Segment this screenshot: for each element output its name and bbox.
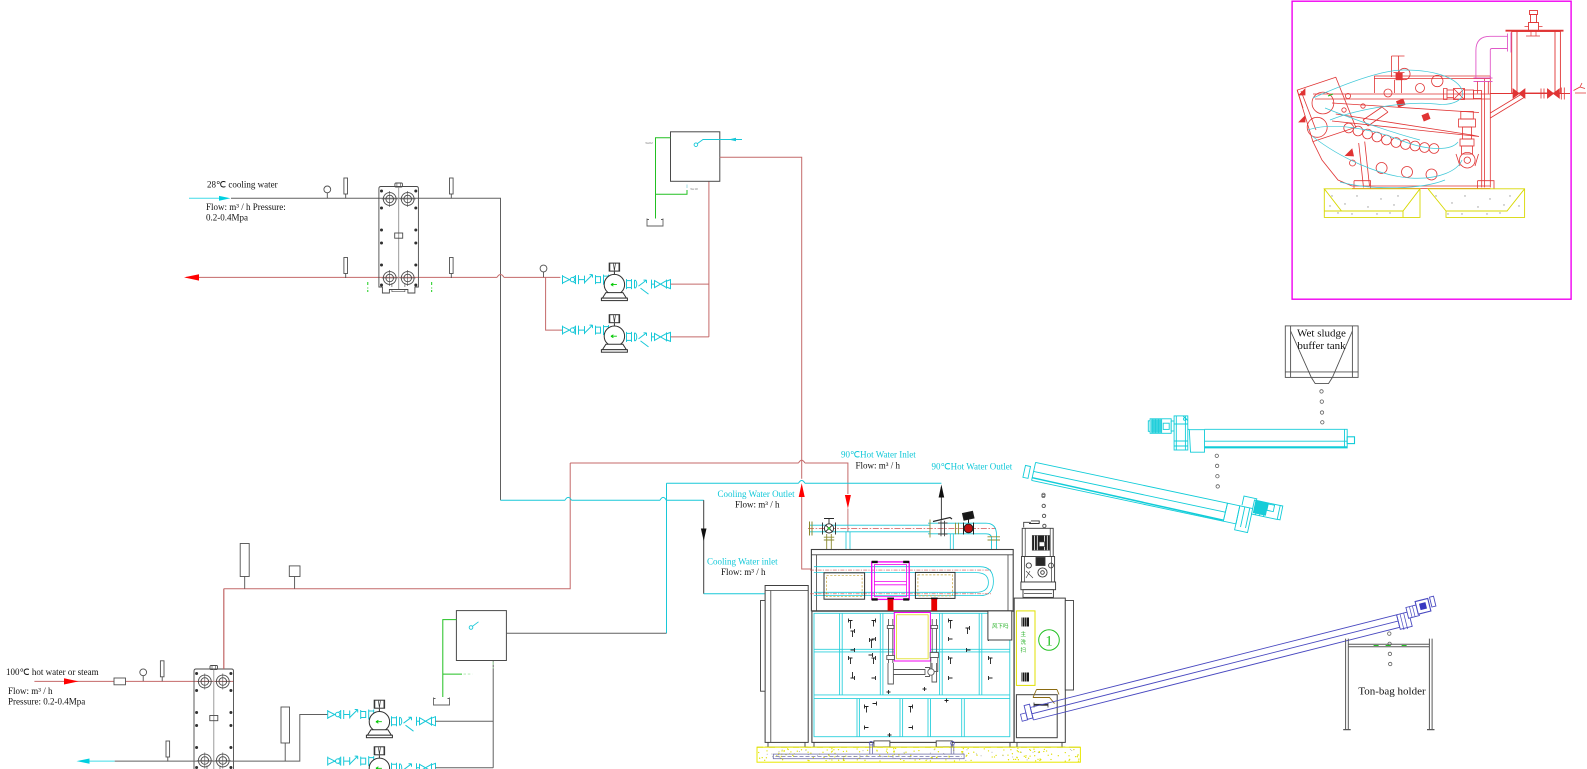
green tick xyxy=(1328,94,1333,96)
svg-text:3w02: 3w02 xyxy=(645,141,653,145)
wire grey condensate line xyxy=(115,715,328,762)
svg-text:100℃ hot water or steam: 100℃ hot water or steam xyxy=(6,667,99,677)
wire P1 discharge red xyxy=(671,283,709,285)
thermometer TW-5 xyxy=(160,661,164,682)
valve cluster suction P1 xyxy=(563,275,609,285)
wire cyan into machine left xyxy=(704,593,765,595)
small nozzle fittings pattern xyxy=(849,619,993,738)
thermometer tall near E2 xyxy=(281,707,290,743)
wire red hot water supply from box1 right xyxy=(720,157,812,569)
pipe left end flange xyxy=(810,522,813,536)
svg-text:0.2-0.4Mpa: 0.2-0.4Mpa xyxy=(206,213,248,223)
falling dots near C1 xyxy=(1215,454,1219,488)
feed pipes inside xyxy=(887,619,939,684)
lever handle xyxy=(933,518,952,522)
underfloor drag conveyor xyxy=(773,741,964,758)
valve cluster discharge P3 xyxy=(392,716,436,731)
SEC6 main dryer machine xyxy=(757,494,1080,762)
main beams xyxy=(1374,76,1490,187)
middle roller row xyxy=(1344,123,1354,133)
dryer lower box xyxy=(812,611,1014,742)
drain funnel D2 xyxy=(434,698,450,706)
falling dots below blue conveyor head xyxy=(1388,632,1392,666)
top pipe header assembly xyxy=(808,511,1000,549)
svg-text:风下吗: 风下吗 xyxy=(992,622,1009,630)
valve cluster suction P4 xyxy=(328,756,374,766)
black arrow up hot water outlet xyxy=(939,485,945,498)
svg-text:Flow: m³ / h: Flow: m³ / h xyxy=(8,686,53,696)
heat exchanger E2 (plate type) xyxy=(194,666,234,769)
svg-text:Cooling Water inlet: Cooling Water inlet xyxy=(707,557,778,567)
yellow panel xyxy=(1016,611,1035,686)
discharge chute xyxy=(1033,690,1059,698)
legs xyxy=(1352,99,1490,189)
dryer top box xyxy=(811,550,1013,611)
gauge PI-1 xyxy=(324,186,331,198)
gearbox C2 xyxy=(1235,496,1257,533)
heat exchanger E1 (plate type) xyxy=(379,183,419,293)
level sensor in B2 xyxy=(469,626,473,630)
wire red 100C steam inlet xyxy=(34,680,233,682)
green dash marks at E1 bottom xyxy=(368,282,432,292)
discharge press stack xyxy=(1461,112,1474,120)
pipe centerline red dashdot xyxy=(808,527,996,529)
support drop pipe left xyxy=(827,534,832,550)
falling dots above vacuum pump xyxy=(1042,494,1046,527)
pump P4 xyxy=(366,747,392,769)
gearbox of C1 xyxy=(1174,416,1188,450)
valve cluster discharge P2 xyxy=(627,332,671,347)
gauge PI-2 xyxy=(540,265,547,277)
hot water inlet drop pipe xyxy=(846,532,850,550)
svg-text:1: 1 xyxy=(1045,634,1053,650)
thermometer TW-3 xyxy=(344,258,348,279)
internal heating pipe with U-bend xyxy=(814,567,994,596)
wire green overflow piping B2 xyxy=(443,620,462,697)
motor C2 xyxy=(1252,500,1281,520)
left auxiliary cabinet xyxy=(761,586,809,743)
red arrow down hot water inlet xyxy=(845,495,851,509)
wire red vertical to E2 top xyxy=(223,589,225,669)
red feed column right xyxy=(931,598,938,618)
agitator motor on tank xyxy=(1529,23,1539,31)
svg-text:buffer tank: buffer tank xyxy=(1297,340,1346,352)
SEC5 cooling loop to machine xyxy=(501,481,945,634)
level sensor in B1 xyxy=(694,143,698,147)
ton-bag holder frame xyxy=(1343,639,1434,730)
green machine number circle 1 xyxy=(1039,630,1060,651)
svg-text:Flow: m³ / h: Flow: m³ / h xyxy=(735,500,780,510)
wire red riser from bottom-left HX xyxy=(224,463,570,669)
sludge tank on press xyxy=(1490,11,1570,100)
pipe main run double line xyxy=(810,523,987,534)
machine base strip xyxy=(765,741,1065,747)
thermometer TW-1 xyxy=(344,178,348,199)
magenta border frame xyxy=(1292,1,1571,299)
svg-text:28℃ cooling water: 28℃ cooling water xyxy=(207,180,278,190)
svg-text:Flow: m³ / h: Flow: m³ / h xyxy=(721,567,766,577)
wire P4 discharge xyxy=(436,767,494,769)
wire P2 discharge red xyxy=(671,336,709,338)
svg-text:Pressure: 0.2-0.4Mpa: Pressure: 0.2-0.4Mpa xyxy=(8,697,85,707)
cyan grid verticals bottom row xyxy=(857,699,964,737)
svg-text:Cooling Water Outlet: Cooling Water Outlet xyxy=(718,489,796,499)
SEC7 conveyors and tank right side xyxy=(1021,326,1436,730)
tube of C1 xyxy=(1205,429,1348,448)
magenta feed chute frame xyxy=(894,613,930,662)
faucet mark outside border xyxy=(1574,83,1587,93)
screw conveyor C1 horizontal xyxy=(1148,416,1354,452)
bottom-right discharge sub box xyxy=(1016,695,1057,738)
actuated valve xyxy=(963,511,975,534)
svg-text:Flow: m³ / h Pressure:: Flow: m³ / h Pressure: xyxy=(206,202,286,212)
drain funnel D1 xyxy=(647,219,663,227)
pump P2 xyxy=(601,315,627,353)
svg-text:扫: 扫 xyxy=(1021,646,1027,654)
SEC2 box1 expansion tank and green piping xyxy=(645,132,742,226)
green dashes on holder bar xyxy=(1374,645,1410,647)
tank outlet piping and valves xyxy=(1490,93,1570,95)
wire cooling water top line xyxy=(231,198,501,500)
valve cluster discharge P4 xyxy=(392,763,436,769)
magenta chamber xyxy=(872,562,910,600)
barcode block top xyxy=(1022,618,1030,627)
barcode block bottom xyxy=(1022,673,1030,682)
control box B1 xyxy=(671,132,720,182)
wire red header from box1 xyxy=(708,181,710,337)
middle band frame xyxy=(1332,103,1479,137)
left chamber window xyxy=(824,573,865,599)
SEC9 labels xyxy=(6,180,1013,707)
inclined left frame xyxy=(1297,77,1356,141)
red arrow up cooling water outlet xyxy=(799,483,805,497)
SEC3 hot loop red lines xyxy=(224,157,851,669)
concrete speckles xyxy=(1329,195,1519,214)
wire cyan condensate return arrow xyxy=(80,760,115,762)
svg-text:洗: 洗 xyxy=(1021,638,1027,646)
SEC8 top-right belt press in magenta box xyxy=(1292,1,1586,299)
small red clamp mid xyxy=(1397,99,1406,107)
wire dark drop to machine inlet xyxy=(703,500,705,594)
foundation speckles xyxy=(758,748,1079,762)
screw conveyor C2 inclined xyxy=(1023,462,1283,532)
upper frame small motor xyxy=(1396,73,1402,80)
thermometer TW-6 xyxy=(166,741,170,762)
wire cyan cooling inlet run with pipe hops xyxy=(501,499,704,501)
pump P3 xyxy=(366,700,392,738)
red arrow left xyxy=(184,274,199,280)
black arrow down cooling inlet xyxy=(701,529,707,542)
wire 28C cooling water inlet (cyan arrow) xyxy=(189,197,220,199)
wire grey from box2 to cyan riser xyxy=(506,632,666,634)
wire grey riser to box2 xyxy=(492,661,494,768)
pipe right elbow down xyxy=(986,523,997,549)
left drums xyxy=(1312,92,1334,114)
wire red branch to pump 2 xyxy=(546,277,563,330)
vacuum pump unit xyxy=(1021,521,1056,598)
foundation yellow xyxy=(757,747,1080,762)
flange right of valve xyxy=(956,523,959,534)
cyan grid verticals upper/mid xyxy=(840,613,982,695)
cyan grid outer xyxy=(814,613,1010,736)
svg-text:Wet sludge: Wet sludge xyxy=(1297,328,1346,340)
left end cap C2 xyxy=(1023,465,1031,478)
red feed column left xyxy=(887,598,894,618)
lower rollers xyxy=(1376,163,1387,174)
control box B2 xyxy=(456,611,506,661)
valve cluster suction P3 xyxy=(328,710,374,720)
thermometer tall on steam line xyxy=(240,544,249,577)
foundation concrete blocks xyxy=(1324,189,1524,218)
valve cluster suction P2 xyxy=(563,325,609,335)
white control sub-box xyxy=(988,611,1012,640)
wire red hot water inlet main xyxy=(570,463,848,494)
wire hot side red return line xyxy=(186,276,560,278)
svg-text:Flow: m³ / h: Flow: m³ / h xyxy=(856,461,901,471)
right drive gearbox xyxy=(1454,89,1465,100)
wire cyan drop to box2 xyxy=(666,483,668,633)
flanged joint xyxy=(938,521,948,536)
falling dots below tank xyxy=(1320,390,1324,424)
SEC1 top-left cooling water circuit xyxy=(184,178,709,500)
svg-text:3w10: 3w10 xyxy=(690,187,698,191)
svg-text:主: 主 xyxy=(1021,630,1027,638)
cyan grid horizontals xyxy=(814,649,1010,698)
blue bagging conveyor xyxy=(1021,596,1436,721)
thermometer TW-4 xyxy=(450,258,454,279)
wire green overflow piping B1 xyxy=(656,138,688,219)
red arrow right steam xyxy=(64,678,79,684)
motor of C1 xyxy=(1150,419,1171,434)
diagonal brace to tank xyxy=(1490,94,1524,118)
drive head of blue conveyor xyxy=(1397,612,1413,630)
right auxiliary cabinet xyxy=(1014,598,1073,742)
pump P1 xyxy=(601,263,627,301)
valve V1 on pipe xyxy=(823,519,836,535)
cyan belt path curves xyxy=(1308,70,1463,188)
wire cyan hot water outlet run xyxy=(667,482,942,484)
inline flow element xyxy=(114,678,126,685)
injector fittings below feed columns xyxy=(888,620,937,625)
wire P3 discharge xyxy=(436,720,494,722)
valve cluster discharge P1 xyxy=(627,279,671,294)
instrument box on steam line xyxy=(289,566,300,577)
svg-text:90℃Hot Water Inlet: 90℃Hot Water Inlet xyxy=(841,450,916,460)
wet sludge buffer tank xyxy=(1285,326,1358,384)
svg-text:90℃Hot Water Outlet: 90℃Hot Water Outlet xyxy=(932,462,1013,472)
wire black hot water outlet riser xyxy=(940,487,942,520)
right end transition C2 xyxy=(1223,503,1240,524)
svg-text:Ton-bag holder: Ton-bag holder xyxy=(1358,686,1426,698)
thermometer TW-2 xyxy=(450,178,454,199)
hopper of C1 xyxy=(1188,429,1205,452)
pipe elbow to press xyxy=(1474,33,1512,94)
falling dots below C2 left end xyxy=(1042,493,1046,528)
right chamber window xyxy=(915,572,955,598)
gauge PI-3 xyxy=(140,669,147,681)
belt press machine red frame xyxy=(1297,56,1524,189)
upper belt rollers xyxy=(1399,68,1410,79)
SEC4 bottom-left steam circuit xyxy=(34,589,506,769)
